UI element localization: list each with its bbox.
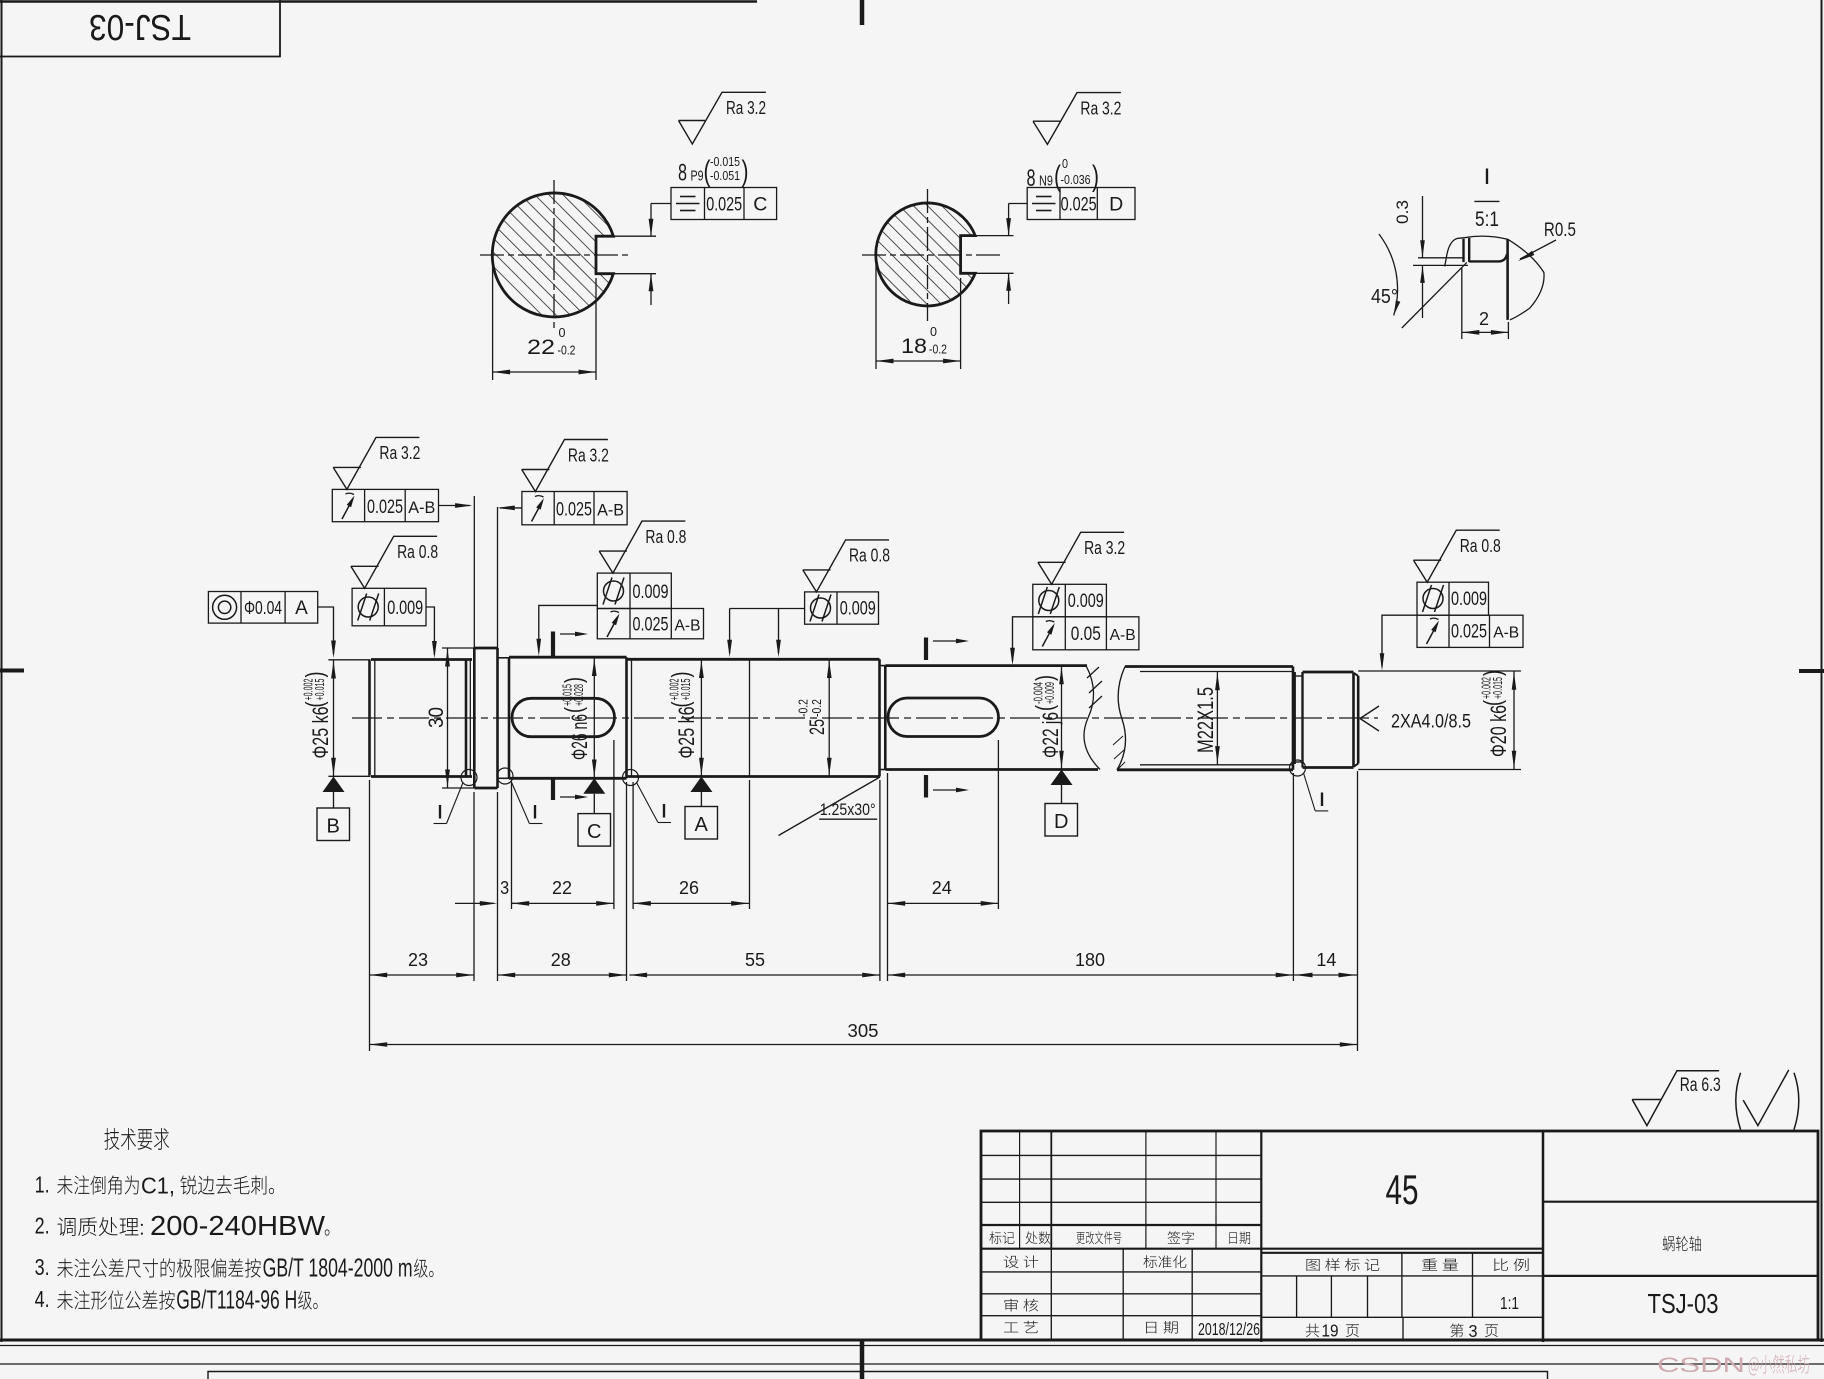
- title block revision grid: [981, 1154, 1261, 1156]
- dimension 26: [633, 902, 749, 904]
- svg-text:(: (: [560, 707, 588, 713]
- collar edge extension lines upward: [473, 496, 475, 648]
- svg-text:): ): [560, 677, 588, 683]
- leader combined phi20: [1382, 615, 1417, 666]
- svg-text:30: 30: [425, 707, 448, 728]
- chamfer callout 1.25x30: [779, 777, 881, 836]
- runout frame 0.025 A-B left with Ra 3.2: [332, 489, 438, 521]
- svg-text:28: 28: [551, 949, 571, 970]
- section view circle 1 centerlines: [480, 254, 632, 256]
- leader cylindricity section1: [426, 607, 434, 655]
- svg-text:A: A: [295, 598, 308, 619]
- svg-text:25: 25: [806, 719, 829, 735]
- svg-text:C: C: [753, 194, 767, 216]
- svg-text:180: 180: [1075, 949, 1105, 970]
- svg-text:0.025: 0.025: [1451, 622, 1487, 643]
- partial next-figure box bottom: [208, 1372, 1548, 1379]
- svg-text:I: I: [661, 802, 668, 823]
- keyway slot oval phi22 section: [888, 698, 999, 737]
- break line 2 with hatching: [1117, 667, 1126, 770]
- svg-text:-0.2: -0.2: [929, 343, 947, 357]
- svg-text:Ra 3.2: Ra 3.2: [726, 97, 766, 118]
- svg-text:Φ20 k6: Φ20 k6: [1486, 705, 1511, 757]
- svg-text:-0.2: -0.2: [796, 699, 811, 717]
- svg-text:Ra 3.2: Ra 3.2: [1080, 98, 1121, 119]
- section view circle 2 keyway slot lines: [961, 234, 976, 236]
- svg-text:1.25x30°: 1.25x30°: [820, 800, 876, 819]
- svg-text:Ra 0.8: Ra 0.8: [645, 526, 686, 547]
- svg-text:23: 23: [408, 949, 428, 970]
- middle header row: [1261, 1252, 1543, 1254]
- thread relief groove outline: [1294, 672, 1296, 764]
- svg-text:1:1: 1:1: [1500, 1293, 1519, 1313]
- surface finish Ra 3.2 circle 2: [1033, 93, 1121, 145]
- svg-text:TSJ-03: TSJ-03: [89, 7, 191, 48]
- svg-text:45: 45: [1386, 1166, 1419, 1213]
- svg-text:TSJ-03: TSJ-03: [1648, 1288, 1719, 1319]
- svg-text:R0.5: R0.5: [1544, 220, 1576, 241]
- svg-text:(: (: [1479, 700, 1507, 706]
- sheet frame right border: [1821, 0, 1823, 1342]
- svg-text:2018/12/26: 2018/12/26: [1198, 1319, 1260, 1339]
- svg-text:45°: 45°: [1371, 286, 1398, 308]
- sheet frame bottom thin rule 1: [0, 1345, 1824, 1347]
- dimension phi26 n6 with arrows: [593, 657, 595, 778]
- svg-text:D: D: [1109, 194, 1123, 216]
- dimension 22-0.2 circle 1: [492, 262, 494, 380]
- technical requirements heading: [104, 1128, 119, 1150]
- detail view I groove bottom lines 0.3 offset: [1418, 257, 1464, 259]
- sheet frame top border: [0, 0, 757, 3]
- part name cell: [1542, 1131, 1545, 1342]
- dimension 2 detail view: [1461, 268, 1463, 339]
- svg-text:305: 305: [848, 1020, 879, 1041]
- main shaft centerline: [352, 717, 1378, 719]
- svg-text:Ra 3.2: Ra 3.2: [1084, 537, 1125, 558]
- sheet frame left border: [1, 0, 3, 1342]
- centering tick top: [860, 0, 865, 25]
- designer rows labels: [1004, 1256, 1019, 1268]
- svg-text:0.009: 0.009: [633, 581, 669, 603]
- centering tick bottom: [860, 1340, 865, 1379]
- svg-text:+0.002: +0.002: [668, 678, 682, 700]
- svg-text:0.025: 0.025: [633, 615, 669, 636]
- svg-text:(: (: [301, 701, 329, 707]
- svg-text:CSDN: CSDN: [1657, 1354, 1745, 1377]
- svg-text:(: (: [667, 701, 695, 707]
- dimension 28: [498, 974, 627, 976]
- title block lower-left grid: [981, 1271, 1261, 1273]
- dimension M22X1.5 thread: [1216, 672, 1218, 765]
- svg-text:0: 0: [930, 325, 937, 339]
- rotated title box TSJ-03 top-left: [0, 0, 280, 57]
- leader frame-to-keyway circle 2: [1009, 203, 1028, 205]
- datum A symbol: [690, 777, 712, 793]
- detail I marker at collar left relief: [461, 770, 477, 786]
- dimension phi25k6 section 1: [328, 659, 370, 661]
- detail I marker at thread relief groove: [1290, 760, 1306, 776]
- thread section M22x1.5 outline: [1117, 667, 1293, 770]
- symmetry tolerance frame 0.025 D: [1027, 188, 1135, 220]
- sheet count row: [1402, 1317, 1404, 1340]
- svg-text:M22X1.5: M22X1.5: [1193, 687, 1218, 753]
- svg-text:-0.2: -0.2: [558, 344, 576, 358]
- detail view I break outline: [1445, 236, 1544, 320]
- svg-text:): ): [667, 672, 695, 678]
- detail view I groove walls: [1462, 239, 1464, 262]
- svg-text:B: B: [327, 816, 340, 838]
- svg-text:): ): [1092, 160, 1099, 193]
- svg-text:I: I: [1484, 164, 1491, 189]
- svg-text:Φ26 n6: Φ26 n6: [567, 714, 592, 760]
- svg-text:0.025: 0.025: [1061, 194, 1097, 216]
- dimension 23: [370, 974, 474, 976]
- svg-text:A-B: A-B: [1493, 625, 1519, 642]
- datum B symbol: [333, 775, 335, 777]
- svg-text:19: 19: [1322, 1321, 1339, 1341]
- section view circle 2 hatched body: [876, 203, 975, 306]
- svg-text:2: 2: [1479, 309, 1489, 329]
- svg-text:A-B: A-B: [675, 618, 701, 635]
- svg-text:14: 14: [1316, 949, 1336, 970]
- svg-text:2XA4.0/8.5: 2XA4.0/8.5: [1391, 711, 1471, 733]
- svg-text:I: I: [532, 803, 539, 824]
- svg-text:Φ0.04: Φ0.04: [244, 597, 282, 618]
- leader frame-to-keyway circle 1: [651, 203, 671, 205]
- dimension 18-0.2 circle 2: [875, 262, 877, 369]
- svg-text:GB/T 1804-2000 m: GB/T 1804-2000 m: [263, 1253, 413, 1283]
- svg-text:Φ25 k6: Φ25 k6: [674, 707, 699, 759]
- relief groove 3mm outline: [498, 657, 510, 659]
- svg-text:C: C: [587, 821, 601, 843]
- datum C symbol: [583, 778, 605, 794]
- dimension 25-0.2 worm section: [828, 659, 830, 776]
- svg-text:A-B: A-B: [597, 502, 624, 520]
- svg-text:0.009: 0.009: [840, 598, 876, 620]
- shaft section phi25k6-26 and worm section outline: [627, 659, 880, 776]
- leader combined phi26: [539, 605, 598, 652]
- symmetry tolerance frame 0.025 C: [671, 188, 777, 220]
- extension lines below shaft: [369, 780, 371, 1051]
- svg-text:0.009: 0.009: [387, 597, 423, 619]
- svg-text:I: I: [1319, 790, 1326, 811]
- svg-text:Ra 0.8: Ra 0.8: [849, 545, 890, 566]
- svg-text:N9: N9: [1039, 173, 1053, 190]
- shaft tail phi20 outline: [1303, 672, 1354, 768]
- dimension 0.3 detail view: [1422, 196, 1424, 258]
- keyway width dim arrows circle 1: [650, 204, 652, 237]
- svg-text:): ): [742, 155, 749, 188]
- svg-text:): ): [301, 672, 329, 678]
- dimension phi20 k6 tail: [1358, 670, 1521, 672]
- keyway slot oval phi26 section: [512, 698, 615, 736]
- svg-text:Ra 3.2: Ra 3.2: [568, 444, 609, 465]
- svg-text:1.: 1.: [35, 1172, 50, 1198]
- runout frame 0.025 A-B right with Ra 3.2: [522, 492, 627, 525]
- dimension 24 keyway phi22: [888, 902, 999, 904]
- combined frame phi20: cylindricity 0.009 over runout 0.025 A-B with Ra 0.8: [1417, 582, 1489, 615]
- leader combined phi22: [1013, 617, 1033, 661]
- svg-text:I: I: [437, 803, 444, 824]
- section view circle 1 hatched body: [492, 193, 613, 317]
- shaft section phi22 outline: [886, 666, 1099, 770]
- svg-text:A: A: [695, 814, 709, 836]
- cylindricity frame 0.009 section1 with Ra 0.8: [352, 588, 426, 626]
- section view circle 1 keyway slot lines: [596, 235, 614, 237]
- centering tick right: [1799, 669, 1824, 673]
- svg-text:0.009: 0.009: [1068, 590, 1104, 612]
- svg-text:8: 8: [678, 160, 687, 187]
- svg-text:-0.004: -0.004: [1032, 682, 1046, 704]
- combined frame phi26: cylindricity 0.009 over runout 0.025 A-B with Ra 0.8: [597, 573, 671, 608]
- svg-text:55: 55: [745, 949, 765, 970]
- svg-text:): ): [1479, 670, 1507, 676]
- dimension 14: [1293, 974, 1357, 976]
- leader right runout frame to collar line: [500, 507, 522, 509]
- leader concentricity to phi25 dim: [318, 607, 334, 654]
- svg-text:2.: 2.: [35, 1213, 50, 1239]
- dimension 30 collar: [442, 647, 474, 649]
- svg-text:): ): [1031, 675, 1059, 681]
- detail view I 45 deg chamfer line: [1402, 262, 1467, 328]
- surface finish Ra 3.2 circle 1: [679, 92, 766, 144]
- step worm-to-phi22: [880, 665, 886, 667]
- dimension 22 keyway: [512, 902, 614, 904]
- svg-text:0: 0: [559, 326, 566, 340]
- svg-text:24: 24: [932, 877, 952, 898]
- svg-text:C1,: C1,: [141, 1173, 175, 1199]
- leader worm cylindricity two arrows: [730, 608, 805, 610]
- cutting plane marks phi26 keyway: [551, 632, 555, 658]
- svg-text:-0.051: -0.051: [710, 169, 740, 183]
- svg-text:A-B: A-B: [1110, 627, 1136, 644]
- svg-text:Ra 6.3: Ra 6.3: [1680, 1075, 1721, 1096]
- shaft section 1 phi25k6 outline: [371, 660, 472, 777]
- svg-text:+0.015: +0.015: [561, 684, 575, 706]
- combined frame phi22: cylindricity 0.009 over runout 0.05 A-B with Ra 3.2: [1033, 584, 1107, 617]
- svg-text:Ra 3.2: Ra 3.2: [379, 442, 420, 463]
- stamp small cells row: [1261, 1316, 1543, 1318]
- break line 1 with hatching: [1084, 666, 1100, 770]
- dimension 3 relief groove: [455, 902, 494, 904]
- svg-text:18: 18: [901, 335, 927, 358]
- global roughness Ra 6.3 with bracket checkmark: [1632, 1071, 1719, 1126]
- section view circle 2 centerlines: [862, 254, 1000, 256]
- svg-text:0.025: 0.025: [367, 496, 403, 518]
- svg-text:200-240HBW: 200-240HBW: [150, 1210, 326, 1241]
- svg-text:3: 3: [1469, 1321, 1478, 1341]
- svg-text:0: 0: [1062, 157, 1068, 171]
- dimension phi22 j6: [1061, 666, 1063, 770]
- svg-text:0.3: 0.3: [1393, 200, 1412, 224]
- svg-text:Φ22 j6: Φ22 j6: [1038, 712, 1063, 758]
- cutting plane marks phi22 keyway: [924, 638, 928, 661]
- svg-text:0.05: 0.05: [1071, 624, 1101, 645]
- svg-text:-0.2: -0.2: [809, 699, 824, 717]
- concentricity frame phi0.04 A: [208, 592, 317, 624]
- datum D symbol: [1051, 770, 1073, 786]
- svg-text:P9: P9: [691, 168, 704, 185]
- svg-text:Ra 0.8: Ra 0.8: [397, 541, 438, 562]
- keyway width dim arrows circle 2: [1008, 204, 1010, 236]
- detail I marker at phi26 right relief: [623, 770, 639, 786]
- dimension 55: [629, 974, 880, 976]
- dimension 45 degree detail view: [1379, 234, 1398, 315]
- center hole callout 2XA4.0/8.5: [1360, 706, 1379, 731]
- svg-text:+0.002: +0.002: [302, 678, 316, 700]
- svg-text:D: D: [1054, 811, 1068, 833]
- svg-text:Ra 0.8: Ra 0.8: [1460, 535, 1501, 556]
- svg-text:26: 26: [679, 877, 699, 898]
- revision row labels: [989, 1231, 1001, 1244]
- svg-text:0.025: 0.025: [556, 499, 592, 521]
- leader left runout frame to collar line: [439, 505, 471, 507]
- svg-text:0.009: 0.009: [1451, 588, 1487, 610]
- dimension phi25 k6 second: [700, 659, 702, 776]
- svg-text:A-B: A-B: [408, 499, 435, 517]
- svg-text:22: 22: [552, 877, 572, 898]
- centering tick left: [0, 669, 24, 673]
- dimension 180: [888, 974, 1294, 976]
- sheet frame bottom border (thick): [0, 1339, 1824, 1342]
- svg-text:-0.015: -0.015: [710, 155, 740, 169]
- svg-text:3.: 3.: [35, 1254, 50, 1280]
- svg-text:Φ25 k6: Φ25 k6: [308, 707, 333, 759]
- dimension 305 overall: [370, 1044, 1358, 1046]
- svg-text:4.: 4.: [35, 1286, 50, 1312]
- detail I marker at phi26 left relief: [497, 768, 513, 784]
- svg-text:-0.036: -0.036: [1061, 173, 1091, 187]
- svg-text:GB/T1184-96 H: GB/T1184-96 H: [176, 1285, 297, 1315]
- svg-text:(: (: [1031, 705, 1059, 711]
- cylindricity frame 0.009 worm section with Ra 0.8: [805, 592, 879, 624]
- svg-text:+0.002: +0.002: [1480, 677, 1494, 699]
- svg-text:5:1: 5:1: [1475, 208, 1499, 231]
- sheet frame bottom thin rule 2: [0, 1363, 1824, 1365]
- svg-text:8: 8: [1027, 165, 1036, 192]
- shaft section phi26 outline: [509, 657, 627, 778]
- svg-text:0.025: 0.025: [706, 194, 742, 216]
- svg-text:3: 3: [500, 877, 509, 898]
- shaft collar phi30 outline: [474, 648, 497, 788]
- svg-text:22: 22: [527, 336, 555, 359]
- title block outer frame: [981, 1131, 1818, 1340]
